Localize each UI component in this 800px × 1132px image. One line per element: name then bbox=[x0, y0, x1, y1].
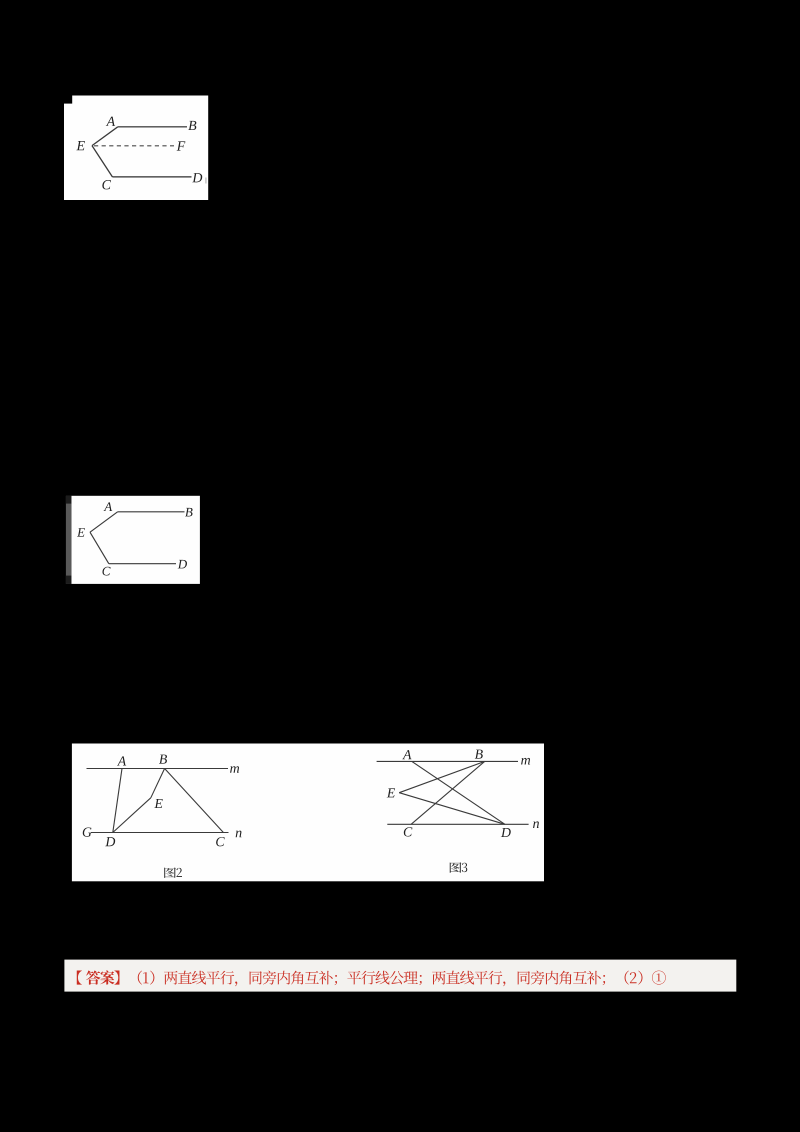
label B bbox=[188, 121, 196, 130]
answer strip background bbox=[64, 960, 736, 992]
line AE (fig1) bbox=[92, 127, 118, 146]
line CD (fig1) bbox=[112, 176, 191, 178]
answer text 【答案】（1）两直线平行，同旁内角互补；平行线公理；两直线平行，同旁内角互补；（2）① bbox=[77, 970, 666, 986]
line BC (图2) bbox=[165, 769, 224, 833]
line AB (fig box2) bbox=[118, 511, 185, 513]
label m bbox=[230, 766, 239, 773]
label B bbox=[159, 755, 167, 764]
label E bbox=[76, 141, 84, 150]
line EC (fig1) bbox=[92, 146, 112, 177]
line ED (图2) bbox=[113, 798, 151, 833]
label D bbox=[192, 173, 202, 182]
line m (图3) bbox=[377, 760, 518, 762]
line ED (图3) bbox=[399, 793, 505, 825]
black notch at box1 top-left corner bbox=[64, 96, 72, 104]
label C bbox=[404, 827, 413, 836]
label A bbox=[104, 502, 113, 511]
label E bbox=[154, 799, 162, 808]
label F bbox=[177, 141, 186, 150]
wide figure box with 图2 and 图3 bbox=[72, 744, 544, 882]
caption 图3 bbox=[450, 862, 468, 872]
label D bbox=[105, 837, 115, 846]
dark top cap of gray strip bbox=[66, 496, 72, 504]
dark bottom cap of gray strip bbox=[66, 576, 72, 584]
line AD (图3) bbox=[412, 761, 505, 824]
label A bbox=[402, 750, 411, 759]
dashed line EF (fig1) bbox=[94, 145, 174, 147]
figure box 1 (problem figure with E,F) bbox=[64, 96, 208, 201]
line AB (fig1) bbox=[118, 126, 187, 128]
caption 图2 bbox=[164, 867, 182, 877]
line m (图2) bbox=[87, 768, 229, 770]
line AD (图2) bbox=[113, 769, 122, 833]
figure box 2 (answer figure, no F) bbox=[71, 496, 200, 584]
label A bbox=[117, 756, 126, 765]
label n bbox=[533, 821, 539, 828]
label E bbox=[77, 528, 85, 537]
label n bbox=[236, 831, 242, 838]
label D bbox=[178, 560, 187, 569]
line AE (fig box2) bbox=[90, 512, 118, 532]
line BC (图3) bbox=[411, 761, 485, 824]
line CD (fig box2) bbox=[109, 563, 176, 565]
label C bbox=[102, 180, 111, 189]
line BE (图2) bbox=[151, 769, 165, 798]
gray scan strip on left edge of box 2 bbox=[66, 496, 72, 584]
line EB (图3) bbox=[399, 761, 485, 792]
label E bbox=[387, 788, 395, 797]
label m bbox=[521, 758, 530, 765]
label B bbox=[185, 508, 193, 517]
label A bbox=[106, 117, 115, 126]
label C bbox=[102, 567, 110, 576]
label B bbox=[475, 750, 483, 759]
label C bbox=[216, 837, 225, 846]
line n (图3) bbox=[387, 823, 528, 825]
label D bbox=[501, 828, 511, 837]
line EC (fig box2) bbox=[90, 532, 109, 564]
faint scan mark right of D (fig1) bbox=[205, 178, 207, 184]
line n (图2) bbox=[91, 832, 229, 834]
label G bbox=[83, 827, 92, 836]
